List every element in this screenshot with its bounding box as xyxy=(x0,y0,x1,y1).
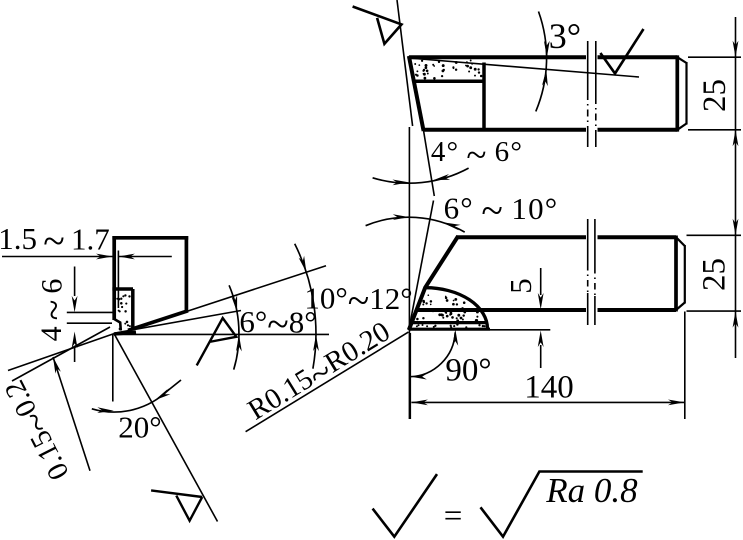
view1 end cap right edge xyxy=(685,62,687,125)
view2 tool bar top edge xyxy=(457,235,586,239)
view1 insert bottom seam xyxy=(414,80,484,84)
25 dimension vertical line xyxy=(735,17,737,358)
view1 3 degree lower arrow xyxy=(542,69,548,86)
view1 3 degree upper arrow xyxy=(544,41,550,58)
view1 front edge extension line xyxy=(424,131,435,196)
view1 tool bar top edge xyxy=(409,55,586,59)
6-10 degree left arrow xyxy=(393,214,410,220)
view1 tool bar bottom edge xyxy=(423,128,586,132)
view2 rake reference slant line xyxy=(409,201,434,331)
25 dimension extension lines view1 xyxy=(688,56,741,58)
1.5-1.7 dimension line left part xyxy=(2,256,113,258)
detail 20 degree line xyxy=(114,334,218,522)
svg-text:=: = xyxy=(444,499,463,535)
detail head right edge xyxy=(185,236,189,313)
detail insert top seam xyxy=(112,287,133,291)
90 degree arc with arrows xyxy=(410,332,455,376)
view1 break line right xyxy=(595,41,597,97)
svg-text:25: 25 xyxy=(697,258,733,291)
svg-text:3°: 3° xyxy=(549,16,581,56)
view1 shank end face seam xyxy=(675,55,679,131)
4-6 dimension lower arrow xyxy=(74,347,76,362)
svg-text:Ra 0.8: Ra 0.8 xyxy=(545,471,638,510)
view1 left slanted front edge xyxy=(409,56,424,131)
6-8 degree upper arrow xyxy=(231,295,237,312)
view2 shank end face seam xyxy=(674,236,678,312)
legend basic surface symbol xyxy=(373,474,437,537)
detail flank baseline xyxy=(115,333,330,335)
20 degree arc right arrow xyxy=(166,380,181,392)
detail vertical line below tip xyxy=(112,334,114,402)
detail rake face edge xyxy=(128,311,188,331)
10-12 degree lower arrow xyxy=(313,335,319,352)
detail flank edge at tip xyxy=(114,332,136,334)
detail cutting edge land step xyxy=(114,319,121,331)
view2 insert dome arc xyxy=(425,288,487,329)
land extension line lower xyxy=(12,327,110,381)
legend Ra surface symbol xyxy=(481,472,643,537)
140 dimension line with arrows xyxy=(411,401,684,403)
svg-text:140: 140 xyxy=(524,370,574,406)
detail flank angle reference line xyxy=(115,311,241,334)
view1 insert stipple xyxy=(414,60,482,80)
svg-text:90°: 90° xyxy=(445,353,491,389)
1.5-1.7 extension line xyxy=(117,251,119,309)
view1 3 degree ground-face line xyxy=(409,58,639,77)
1.5-1.7 dimension line right part xyxy=(118,256,171,258)
detail insert right seam xyxy=(131,289,135,330)
view2 tool bar bottom edge xyxy=(416,308,586,312)
svg-text:5: 5 xyxy=(503,278,538,294)
4-6 degree left arrow xyxy=(393,180,410,186)
view1 end cap chamfer top xyxy=(677,57,686,63)
surface symbol on 20 degree line xyxy=(151,490,202,497)
view2 break line left xyxy=(587,219,589,264)
view1 surface finish symbol on front face line xyxy=(353,7,402,44)
6-8 degree dimension arc xyxy=(229,285,239,369)
view1 surface finish symbol on 3 degree line xyxy=(600,29,643,74)
view2 insert stipple xyxy=(416,294,479,322)
view1 front face extension line from image top xyxy=(397,0,413,126)
view1 3 degree dimension arc xyxy=(536,12,547,112)
view2 break line right xyxy=(594,219,596,267)
4-6 degree right arrow xyxy=(433,174,450,180)
detail head top edge xyxy=(112,236,188,240)
view1 end cap chamfer bottom xyxy=(677,124,686,130)
140 dimension extension line left xyxy=(409,333,411,419)
view1 break line left xyxy=(587,41,589,93)
view2 end cap chamfer top xyxy=(676,237,685,246)
svg-text:20°: 20° xyxy=(118,410,161,445)
25 dimension extension lines view2 xyxy=(687,234,742,236)
view2 end cap right edge xyxy=(684,245,686,304)
0.15-0.2 dimension line with arrow xyxy=(53,357,90,471)
4-6 dimension extension line lower xyxy=(67,322,112,324)
surface symbol on flank baseline xyxy=(197,318,237,365)
svg-text:25: 25 xyxy=(697,79,733,112)
view2 end cap chamfer bottom xyxy=(676,303,685,311)
10-12 degree upper arrow xyxy=(299,256,307,273)
land extension line upper xyxy=(8,334,114,371)
6-8 degree lower arrow xyxy=(236,335,242,352)
20 degree dimension arc xyxy=(92,389,169,412)
140 dimension extension line right xyxy=(684,312,686,420)
view1 insert right boundary xyxy=(482,63,486,130)
detail head left edge xyxy=(112,236,116,320)
20 degree arc left arrow xyxy=(97,407,114,413)
4-6 dimension upper arrow xyxy=(74,267,76,297)
4-6 dimension extension line upper xyxy=(67,311,115,313)
view2 insert braze seam line xyxy=(411,321,487,324)
10-12 degree dimension arc xyxy=(295,244,316,369)
5 dimension upper arrow xyxy=(540,268,542,295)
detail insert stipple xyxy=(116,294,131,330)
view2 insert bottom plate line xyxy=(409,328,490,331)
R0.15-R0.20 leader line xyxy=(246,332,409,432)
6-10 degree right arrow xyxy=(442,222,461,230)
vertical reference line through tool tips xyxy=(408,127,410,419)
5 dimension lower arrow xyxy=(540,345,542,368)
detail rake face extension line xyxy=(186,266,326,312)
4-6 degree dimension arc xyxy=(373,168,469,183)
view2 chamfered front edge xyxy=(409,236,458,330)
6-10 degree dimension arc xyxy=(366,217,465,232)
5 dimension extension line xyxy=(490,329,550,331)
